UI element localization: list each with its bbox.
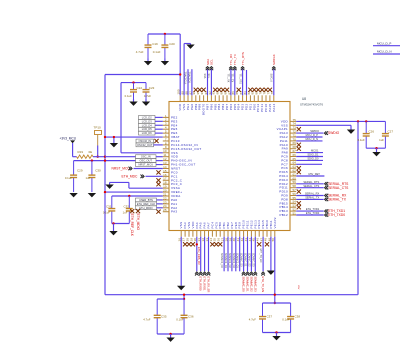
svg-text:C32: C32 xyxy=(124,205,130,209)
svg-text:LCD_D2: LCD_D2 xyxy=(142,115,153,119)
svg-text:TTL_TX: TTL_TX xyxy=(231,74,234,83)
svg-text:+3V3_MCU: +3V3_MCU xyxy=(60,137,77,141)
svg-text:SERIAL_RTS: SERIAL_RTS xyxy=(303,180,319,184)
svg-text:SWDIO: SWDIO xyxy=(310,129,319,133)
svg-text:SDMMC_D3: SDMMC_D3 xyxy=(251,253,254,267)
svg-text:ETH_TX_EN: ETH_TX_EN xyxy=(261,277,265,293)
svg-text:SCL: SCL xyxy=(210,59,214,65)
svg-text:C31: C31 xyxy=(106,205,112,209)
svg-text:4.7uF: 4.7uF xyxy=(143,317,150,321)
svg-text:C23: C23 xyxy=(149,86,155,90)
svg-text:R19: R19 xyxy=(78,150,84,154)
svg-text:SCL: SCL xyxy=(207,74,210,79)
svg-text:LCD_D3: LCD_D3 xyxy=(142,119,153,123)
svg-text:TTL_RTS: TTL_RTS xyxy=(238,74,241,85)
svg-text:SDMMC_D1: SDMMC_D1 xyxy=(244,253,247,267)
svg-text:ETH_TXD0: ETH_TXD0 xyxy=(306,211,320,215)
svg-text:TTL_TX: TTL_TX xyxy=(233,54,237,65)
svg-text:C36: C36 xyxy=(188,314,194,318)
svg-text:C30: C30 xyxy=(95,169,101,173)
svg-text:SDMMC_D2: SDMMC_D2 xyxy=(249,277,253,293)
svg-text:0E: 0E xyxy=(89,150,93,154)
svg-text:51: 51 xyxy=(293,211,297,215)
svg-text:SWDIO: SWDIO xyxy=(328,131,340,135)
svg-text:ETH_TXD1: ETH_TXD1 xyxy=(306,207,320,211)
svg-text:1uF: 1uF xyxy=(123,211,128,215)
svg-text:LCD_D5: LCD_D5 xyxy=(142,127,153,131)
svg-text:OSC32_IN: OSC32_IN xyxy=(138,139,151,143)
svg-text:C27: C27 xyxy=(388,130,394,134)
svg-text:OSC_IN: OSC_IN xyxy=(141,155,151,159)
svg-text:SDIO_D1: SDIO_D1 xyxy=(307,153,319,157)
svg-text:1uF: 1uF xyxy=(379,138,384,142)
svg-text:NRST_MCU: NRST_MCU xyxy=(112,167,131,171)
svg-text:C20: C20 xyxy=(169,42,175,46)
svg-text:TTL_RTS: TTL_RTS xyxy=(241,52,245,65)
svg-text:NRST_MCU: NRST_MCU xyxy=(139,163,154,167)
svg-text:C19: C19 xyxy=(152,42,158,46)
svg-text:C35: C35 xyxy=(161,314,167,318)
svg-text:ETH_MDIO: ETH_MDIO xyxy=(139,206,152,210)
svg-text:SDMMC_D3: SDMMC_D3 xyxy=(253,277,257,293)
svg-text:LCD_D4: LCD_D4 xyxy=(142,123,153,127)
svg-text:MCU_D_N: MCU_D_N xyxy=(377,50,392,54)
svg-text:0.1uF: 0.1uF xyxy=(176,317,183,321)
svg-text:MCU_D_P: MCU_D_P xyxy=(377,41,391,45)
svg-text:ETH_RXD1: ETH_RXD1 xyxy=(203,277,207,292)
svg-text:SDIO_D0: SDIO_D0 xyxy=(307,157,319,161)
svg-text:TRACED0: TRACED0 xyxy=(188,72,191,84)
svg-text:TTL_RX: TTL_RX xyxy=(227,74,230,83)
svg-text:SDA: SDA xyxy=(203,74,206,79)
svg-text:MCU_D_N: MCU_D_N xyxy=(305,137,318,141)
svg-text:SERIAL_CTS: SERIAL_CTS xyxy=(303,184,319,188)
svg-text:PA14: PA14 xyxy=(272,103,276,111)
svg-text:U5V_DET: U5V_DET xyxy=(308,172,320,176)
svg-text:ETH_MDIO: ETH_MDIO xyxy=(136,214,140,231)
svg-text:TP10: TP10 xyxy=(94,126,102,130)
svg-text:4.7uF: 4.7uF xyxy=(249,317,256,321)
svg-text:C26: C26 xyxy=(369,130,375,134)
svg-text:STM32H743VGT6: STM32H743VGT6 xyxy=(300,103,323,107)
svg-text:SERIAL_TX: SERIAL_TX xyxy=(305,196,319,200)
svg-text:ETH_TX_EN: ETH_TX_EN xyxy=(259,249,262,263)
svg-text:ETH_REF_CLK: ETH_REF_CLK xyxy=(130,214,134,237)
svg-text:0.1uF: 0.1uF xyxy=(282,317,289,321)
svg-text:SDMMC1_D3: SDMMC1_D3 xyxy=(232,253,235,268)
svg-text:SERIAL_RX: SERIAL_RX xyxy=(305,192,320,196)
svg-text:ETH_REF_CLK: ETH_REF_CLK xyxy=(137,202,156,206)
svg-text:MCU_D_P: MCU_D_P xyxy=(306,133,319,137)
svg-text:MCO1: MCO1 xyxy=(311,149,319,153)
svg-text:SDMMC1_D2: SDMMC1_D2 xyxy=(228,253,231,268)
svg-text:U5V: U5V xyxy=(297,285,299,290)
svg-text:SDMMC_D0: SDMMC_D0 xyxy=(240,253,243,267)
svg-text:ETH_TXD0: ETH_TXD0 xyxy=(328,213,345,217)
svg-text:SWCLK: SWCLK xyxy=(270,74,273,83)
svg-text:OSC32_OUT: OSC32_OUT xyxy=(137,143,153,147)
svg-text:ETH_RX_ER: ETH_RX_ER xyxy=(207,277,211,293)
svg-text:SDMMC1_D1: SDMMC1_D1 xyxy=(224,253,227,268)
svg-text:U8: U8 xyxy=(302,97,306,101)
svg-text:SERIAL_CTS: SERIAL_CTS xyxy=(328,186,349,190)
svg-text:SERIAL_TX: SERIAL_TX xyxy=(328,198,347,202)
svg-text:OSC_OUT: OSC_OUT xyxy=(139,159,152,163)
svg-text:25: 25 xyxy=(163,208,167,212)
svg-text:SDMMC1_D0: SDMMC1_D0 xyxy=(220,253,223,268)
svg-text:C29: C29 xyxy=(77,169,83,173)
svg-text:SDMMC_D1: SDMMC_D1 xyxy=(246,277,250,293)
svg-text:ETH_MDC: ETH_MDC xyxy=(122,174,139,178)
svg-text:SDMMC_D2: SDMMC_D2 xyxy=(247,253,250,267)
svg-text:0.1uF: 0.1uF xyxy=(153,50,161,54)
svg-text:LCD_D6: LCD_D6 xyxy=(142,131,153,135)
svg-text:C38: C38 xyxy=(295,314,301,318)
svg-text:0.1uF: 0.1uF xyxy=(65,176,72,180)
svg-text:4.7uF: 4.7uF xyxy=(144,94,151,98)
svg-text:USER_BTN: USER_BTN xyxy=(139,198,153,202)
svg-text:C37: C37 xyxy=(267,314,273,318)
svg-text:SDMMC1_CK: SDMMC1_CK xyxy=(236,253,239,268)
svg-text:SDMMC_D0: SDMMC_D0 xyxy=(242,277,246,293)
svg-text:ETH_RXD0: ETH_RXD0 xyxy=(199,277,203,292)
svg-text:0.1uF: 0.1uF xyxy=(358,138,365,142)
svg-text:C22: C22 xyxy=(137,86,143,90)
svg-text:PA3: PA3 xyxy=(171,210,177,214)
svg-text:SWCLK: SWCLK xyxy=(272,54,276,65)
svg-text:0.1uF: 0.1uF xyxy=(125,94,132,98)
svg-text:TRACECLK: TRACECLK xyxy=(184,72,187,85)
svg-text:4.7uF: 4.7uF xyxy=(136,50,144,54)
svg-text:1uF: 1uF xyxy=(85,176,90,180)
svg-text:VCAP2: VCAP2 xyxy=(273,217,277,228)
svg-text:0.1uF: 0.1uF xyxy=(103,211,110,215)
svg-text:PB12: PB12 xyxy=(279,213,288,217)
